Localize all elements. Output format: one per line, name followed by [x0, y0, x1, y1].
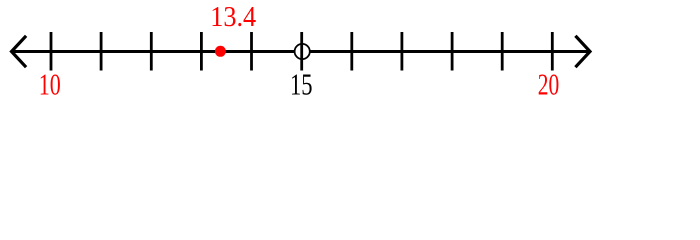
tick 18: [451, 32, 454, 71]
tick 14: [250, 32, 253, 71]
tick 17: [400, 32, 403, 71]
number line axis: [12, 50, 589, 53]
right arrowhead: [577, 37, 591, 66]
tick 11: [100, 32, 103, 71]
left arrowhead: [12, 37, 26, 66]
red point at 13.4: [215, 46, 226, 57]
tick 15: [300, 32, 303, 71]
svg-text:10: 10: [39, 67, 61, 100]
svg-text:15: 15: [290, 67, 312, 100]
tick 13: [200, 32, 203, 71]
svg-text:20: 20: [538, 67, 559, 100]
tick 16: [350, 32, 353, 71]
tick 10: [50, 32, 53, 71]
tick 19: [501, 32, 504, 71]
open circle at 15: [295, 44, 310, 59]
tick 12: [150, 32, 153, 71]
tick 20: [551, 32, 554, 71]
svg-text:13.4: 13.4: [210, 1, 256, 32]
